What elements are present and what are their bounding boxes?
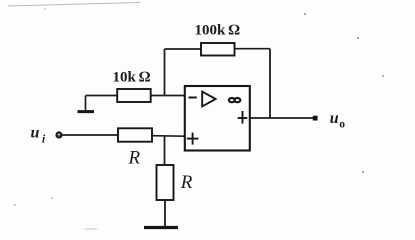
op-amp plus input mark [187,133,199,145]
resistor R vertical [157,165,174,200]
wire feedback top right [235,48,271,50]
svg-text:R: R [180,172,193,193]
wire ground to 10k [86,95,119,97]
wire feedback top left [165,48,202,50]
op-amp triangle [202,92,215,107]
resistor 10k [117,89,151,102]
wire R to op-amp plus input [152,135,185,138]
wire ground riser [85,96,87,113]
wire branch down to vertical R [164,136,166,166]
svg-text:10k Ω: 10k Ω [113,70,151,86]
op-amp minus sign [189,97,197,99]
resistor R horizontal [118,128,152,141]
wire output [250,117,314,119]
svg-text:R: R [128,148,141,169]
node uo terminal [313,116,318,121]
svg-text:u: u [31,125,40,142]
ground bottom [144,226,178,229]
svg-text:100k Ω: 100k Ω [195,23,241,39]
wire vertical R to ground [164,200,166,227]
node ui terminal [56,132,62,138]
ground left [78,110,95,113]
op-amp infinity symbol [229,98,240,102]
wire feedback left vertical [164,49,166,96]
wire feedback right vertical [269,49,271,118]
svg-text:u: u [330,110,339,127]
wire 10k to op-amp minus input [151,95,185,97]
svg-text:o: o [339,118,345,130]
resistor 100k feedback [201,43,235,56]
op-amp plus output mark [238,111,248,124]
op-amp U1 body [185,86,250,151]
stray scan line top [8,3,140,7]
wire ui to R [62,134,118,136]
